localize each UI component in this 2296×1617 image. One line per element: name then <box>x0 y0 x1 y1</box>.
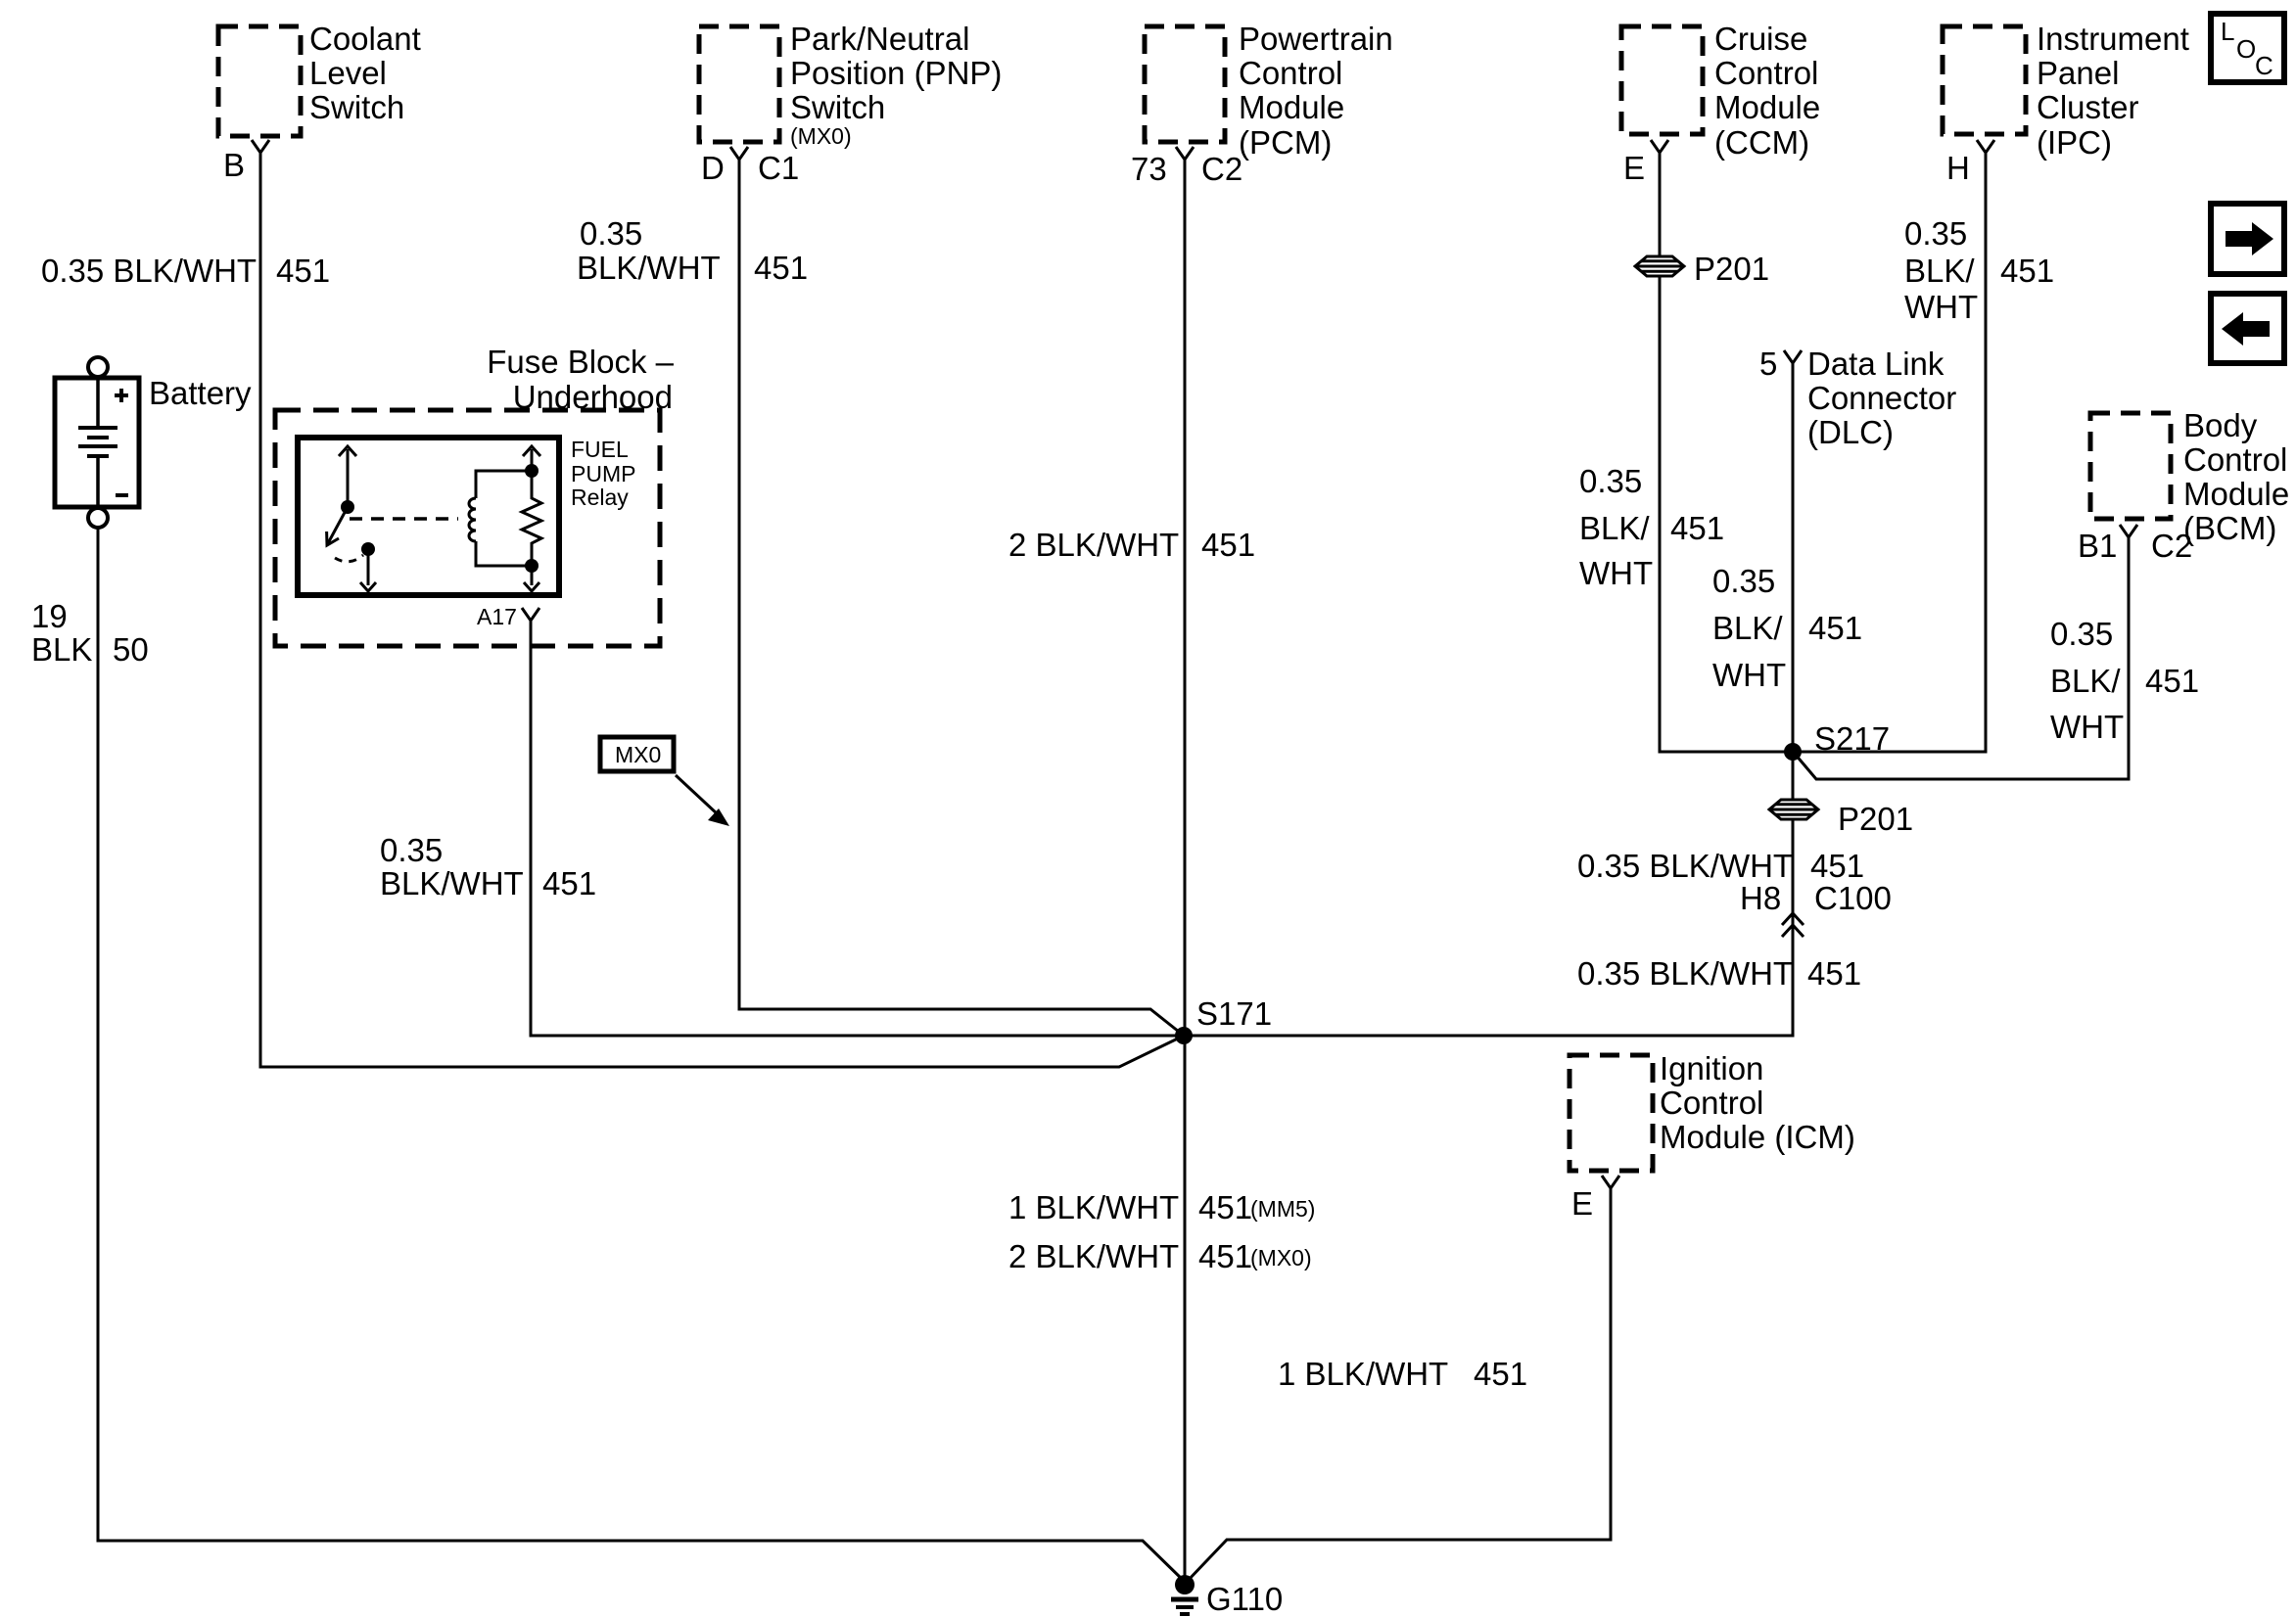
svg-text:0.35: 0.35 <box>380 832 443 868</box>
connector terminal D C1 (PNP) <box>701 147 799 186</box>
ignition control module box (ICM) <box>1570 1050 1855 1171</box>
svg-text:1 BLK/WHT: 1 BLK/WHT <box>1008 1189 1179 1225</box>
wire ICM 451 to G110 <box>1187 1188 1611 1582</box>
wire battery 50 to G110 <box>98 528 1185 1582</box>
data link connector terminal 5 (DLC) <box>1759 346 1956 450</box>
main wire PCM to G110 <box>1184 160 1187 1582</box>
svg-text:L: L <box>2221 17 2234 46</box>
wire IPC to S217 <box>1798 153 1986 752</box>
svg-text:Switch: Switch <box>790 89 885 125</box>
svg-text:451: 451 <box>1670 510 1724 546</box>
svg-text:Relay: Relay <box>571 485 629 510</box>
svg-text:Panel: Panel <box>2037 55 2119 91</box>
svg-text:19: 19 <box>31 598 68 634</box>
svg-text:(PCM): (PCM) <box>1239 124 1332 161</box>
svg-text:5: 5 <box>1759 346 1777 382</box>
svg-text:BLK/WHT: BLK/WHT <box>380 865 524 901</box>
svg-text:BLK/: BLK/ <box>2050 663 2121 699</box>
svg-text:2 BLK/WHT: 2 BLK/WHT <box>1008 1238 1179 1274</box>
relay switch common pin arrow (up) <box>339 446 356 507</box>
body control module box (BCM) <box>2090 407 2289 546</box>
connector terminal 73 C2 (PCM) <box>1131 147 1242 187</box>
svg-text:Module: Module <box>2183 476 2289 512</box>
svg-text:Cruise: Cruise <box>1714 21 1807 57</box>
svg-text:C1: C1 <box>758 150 799 186</box>
wire CCM to S217 <box>1660 153 1788 752</box>
wire label 0.35 BLK/WHT 451 (A17) <box>380 832 596 901</box>
park/neutral position switch box <box>699 21 1002 149</box>
svg-text:Cluster: Cluster <box>2037 89 2139 125</box>
relay fixed contact <box>361 542 375 556</box>
svg-text:C: C <box>2255 51 2273 80</box>
legend arrow right box <box>2211 204 2284 274</box>
svg-text:O: O <box>2236 34 2256 64</box>
wire label 0.35 BLK/WHT 451 (BCM) <box>2050 616 2199 745</box>
relay contact arc (dashed) <box>335 555 363 562</box>
svg-text:WHT: WHT <box>1904 289 1978 325</box>
relay coil supply pin arrow (up) <box>523 446 540 478</box>
svg-text:451: 451 <box>1807 955 1861 992</box>
legend arrow left box <box>2211 294 2284 363</box>
wire BCM to S217 <box>1795 537 2129 779</box>
svg-text:451: 451 <box>2145 663 2199 699</box>
svg-text:D: D <box>701 150 725 186</box>
wire A17 451 to S171 <box>531 621 1178 1036</box>
svg-text:BLK/: BLK/ <box>1712 610 1783 646</box>
LOC legend box <box>2211 14 2284 82</box>
svg-text:(BCM): (BCM) <box>2183 510 2276 546</box>
svg-text:Instrument: Instrument <box>2037 21 2189 57</box>
svg-text:Connector: Connector <box>1807 380 1956 416</box>
svg-text:2 BLK/WHT: 2 BLK/WHT <box>1008 527 1179 563</box>
svg-text:C2: C2 <box>1201 151 1242 187</box>
svg-text:451: 451 <box>1810 848 1864 884</box>
svg-text:(MM5): (MM5) <box>1250 1196 1315 1222</box>
relay output pin arrow (down) <box>360 549 376 591</box>
battery <box>55 357 252 528</box>
svg-text:Position (PNP): Position (PNP) <box>790 55 1002 91</box>
svg-text:MX0: MX0 <box>615 742 661 767</box>
svg-text:B1: B1 <box>2078 528 2117 564</box>
svg-text:E: E <box>1623 150 1645 186</box>
svg-text:A17: A17 <box>477 604 517 629</box>
svg-text:451: 451 <box>1201 527 1255 563</box>
svg-text:0.35 BLK/WHT: 0.35 BLK/WHT <box>1577 955 1793 992</box>
svg-text:WHT: WHT <box>2050 709 2124 745</box>
svg-text:C100: C100 <box>1814 880 1892 916</box>
wire label 0.35 BLK/WHT 451 (below C100) <box>1577 955 1861 992</box>
instrument panel cluster box (IPC) <box>1943 21 2189 161</box>
svg-text:Body: Body <box>2183 407 2258 443</box>
MX0 callout box with arrow <box>600 737 729 826</box>
splice node S217 <box>1784 720 1890 761</box>
svg-text:0.35: 0.35 <box>580 215 642 252</box>
svg-text:Ignition: Ignition <box>1660 1050 1763 1086</box>
svg-text:451: 451 <box>1198 1189 1252 1225</box>
connector terminal E (ICM) <box>1571 1176 1619 1222</box>
connector terminal B (coolant) <box>223 140 269 183</box>
svg-text:H8: H8 <box>1740 880 1781 916</box>
wire label 0.35 BLK/WHT 451 (PNP) <box>577 215 808 286</box>
svg-text:WHT: WHT <box>1712 657 1786 693</box>
pass-through grommet P201 (lower) <box>1769 800 1913 837</box>
wire label 0.35 BLK/WHT 451 (coolant) <box>41 253 330 289</box>
svg-text:Level: Level <box>309 55 387 91</box>
connector terminal E (CCM) <box>1623 140 1668 186</box>
coolant level switch box <box>218 21 421 136</box>
svg-text:BLK/WHT: BLK/WHT <box>577 250 721 286</box>
relay coil <box>469 471 532 566</box>
svg-text:PUMP: PUMP <box>571 461 635 486</box>
pass-through grommet P201 (upper) <box>1635 251 1769 287</box>
svg-text:451: 451 <box>754 250 808 286</box>
svg-text:Fuse Block –: Fuse Block – <box>487 344 674 380</box>
wire label 2 BLK/WHT 451 (PCM) <box>1008 527 1255 563</box>
svg-text:451: 451 <box>2000 253 2054 289</box>
svg-text:Switch: Switch <box>309 89 404 125</box>
svg-text:Battery: Battery <box>149 375 252 411</box>
svg-text:P201: P201 <box>1838 801 1913 837</box>
svg-text:S217: S217 <box>1814 720 1890 757</box>
svg-text:(DLC): (DLC) <box>1807 414 1894 450</box>
svg-text:FUEL: FUEL <box>571 437 629 462</box>
svg-text:E: E <box>1571 1185 1593 1222</box>
svg-text:Module: Module <box>1714 89 1820 125</box>
svg-text:73: 73 <box>1131 151 1167 187</box>
svg-text:(IPC): (IPC) <box>2037 124 2112 161</box>
svg-text:Control: Control <box>2183 441 2287 478</box>
wire label 0.35 BLK/WHT 451 (DLC) <box>1712 563 1862 693</box>
svg-text:0.35: 0.35 <box>1904 215 1967 252</box>
fuel pump relay box <box>298 437 635 595</box>
svg-text:S171: S171 <box>1196 995 1272 1032</box>
connector terminal H (IPC) <box>1946 140 1994 186</box>
svg-text:Module (ICM): Module (ICM) <box>1660 1119 1855 1155</box>
relay moving contact arm <box>327 507 348 545</box>
svg-text:451: 451 <box>1198 1238 1252 1274</box>
relay actuation dashed link <box>350 517 458 521</box>
svg-text:451: 451 <box>276 253 330 289</box>
cruise control module box (CCM) <box>1621 21 1820 161</box>
wire label 1 BLK/WHT 451 (ICM) <box>1278 1356 1527 1392</box>
ground G110 <box>1171 1575 1283 1617</box>
svg-text:Park/Neutral: Park/Neutral <box>790 21 969 57</box>
svg-text:0.35: 0.35 <box>1579 463 1642 499</box>
svg-text:451: 451 <box>1808 610 1862 646</box>
svg-text:WHT: WHT <box>1579 555 1653 591</box>
svg-text:BLK/: BLK/ <box>1904 253 1975 289</box>
in-line connector C100 pin H8 <box>1740 880 1892 937</box>
wire C1 451 to S171 <box>739 160 1184 1036</box>
wire label 0.35 BLK/WHT 451 (IPC) <box>1904 215 2054 325</box>
svg-text:(MX0): (MX0) <box>790 123 852 149</box>
svg-text:C2: C2 <box>2151 528 2192 564</box>
connector terminal B1 C2 (BCM) <box>2078 525 2192 564</box>
relay coil ground pin arrow (down) <box>524 559 539 591</box>
svg-text:0.35 BLK/WHT: 0.35 BLK/WHT <box>41 253 257 289</box>
powertrain control module box (PCM) <box>1145 21 1393 161</box>
svg-text:G110: G110 <box>1206 1581 1283 1617</box>
svg-text:50: 50 <box>113 631 149 668</box>
svg-text:451: 451 <box>1474 1356 1527 1392</box>
svg-text:Underhood: Underhood <box>513 379 673 415</box>
svg-text:Powertrain: Powertrain <box>1239 21 1393 57</box>
splice node S171 <box>1175 995 1272 1044</box>
svg-text:(MX0): (MX0) <box>1250 1245 1312 1270</box>
svg-text:H: H <box>1946 150 1970 186</box>
svg-text:1 BLK/WHT: 1 BLK/WHT <box>1278 1356 1448 1392</box>
wire label 0.35 BLK/WHT 451 (CCM) <box>1579 463 1724 591</box>
svg-text:P201: P201 <box>1694 251 1769 287</box>
wire B 451 to S171 <box>260 153 1184 1067</box>
svg-text:Control: Control <box>1714 55 1818 91</box>
wire DLC to S217 <box>1792 363 1795 752</box>
svg-text:Control: Control <box>1660 1085 1763 1121</box>
svg-text:BLK: BLK <box>31 631 92 668</box>
wire S217 down to S171 <box>1191 752 1793 1036</box>
svg-text:0.35: 0.35 <box>2050 616 2113 652</box>
svg-text:0.35: 0.35 <box>1712 563 1775 599</box>
svg-text:B: B <box>223 147 245 183</box>
svg-text:(CCM): (CCM) <box>1714 124 1809 161</box>
svg-text:0.35 BLK/WHT: 0.35 BLK/WHT <box>1577 848 1793 884</box>
relay coil suppression resistor <box>522 471 541 566</box>
fuse block underhood dashed box <box>275 344 675 646</box>
wire label 0.35 BLK/WHT 451 (above C100) <box>1577 848 1864 884</box>
relay switch pivot <box>341 500 354 514</box>
svg-text:Module: Module <box>1239 89 1344 125</box>
svg-text:Control: Control <box>1239 55 1342 91</box>
svg-text:Data Link: Data Link <box>1807 346 1945 382</box>
wire labels on main wire below S171 <box>1008 1189 1315 1225</box>
relay pin A17 terminal <box>477 604 539 629</box>
wire label 19 BLK 50 <box>31 598 149 668</box>
svg-text:451: 451 <box>542 865 596 901</box>
svg-text:Coolant: Coolant <box>309 21 421 57</box>
svg-text:BLK/: BLK/ <box>1579 510 1650 546</box>
